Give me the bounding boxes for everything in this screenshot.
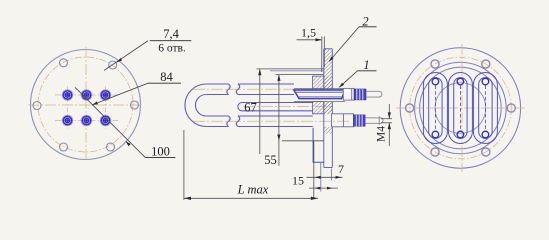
extension line blue vertical x=320.8: [320, 163, 322, 192]
lower tube centerline: [193, 120, 350, 122]
oval 1 inner dashed centerline: [434, 86, 436, 131]
pin 2: [81, 90, 92, 101]
heated zone circle A: [415, 62, 507, 154]
thermostat pocket tube: [238, 103, 313, 111]
upper stud rod: [366, 91, 382, 97]
svg-text:7,4: 7,4: [163, 27, 179, 41]
bolt hole bottom-left: [60, 143, 68, 151]
extension line for 15 left (gray vertical): [313, 141, 315, 200]
pin row dashed centerline lower: [55, 120, 118, 122]
dimension 1,5: [297, 37, 325, 73]
tube loop oval 1: [423, 73, 447, 144]
pin circles inside ovals: [432, 78, 489, 138]
svg-text:1: 1: [363, 58, 369, 72]
left flange vertical centerline: [85, 47, 87, 162]
svg-text:1,5: 1,5: [301, 26, 316, 40]
pin 1: [62, 90, 73, 101]
right flange outer circle: [400, 48, 520, 168]
svg-text:6 отв.: 6 отв.: [158, 43, 186, 55]
bolt hole bottom-right: [107, 143, 115, 151]
left flange bolt circle (orange dash-dot): [38, 57, 133, 152]
svg-text:2: 2: [362, 15, 368, 29]
heated zone circle B: [420, 67, 502, 149]
lower stud rod: [365, 116, 383, 125]
svg-text:100: 100: [151, 145, 170, 159]
bolt hole top-left: [60, 59, 68, 67]
lower tube left segment: [206, 116, 230, 127]
U-bend outer arc: [185, 84, 206, 127]
pin 4: [62, 115, 73, 126]
svg-text:55: 55: [264, 153, 277, 167]
bottom tab: [313, 128, 324, 163]
M4 dimension: [381, 104, 392, 146]
leader line for 7,4 / 6 holes: [104, 41, 191, 71]
pin row dashed centerline upper: [55, 94, 118, 96]
svg-text:7: 7: [338, 162, 344, 176]
upper tube right segment: [236, 84, 294, 95]
pin column centerline left: [67, 87, 69, 130]
right view hole left: [406, 104, 414, 112]
position label 1: [339, 71, 377, 88]
extension line blue vertical x=331.6: [331, 169, 333, 181]
extension line bottom (55): [282, 140, 324, 142]
right view vertical centerline: [461, 44, 463, 172]
L max extension line left: [183, 130, 185, 200]
welded boss upper (hatched): [313, 76, 333, 114]
leader line for 84: [92, 83, 181, 105]
dimension line 67: [258, 69, 261, 154]
svg-text:15: 15: [292, 174, 304, 188]
extension line top (55): [276, 74, 325, 76]
lower stud nut (threaded, blue): [354, 115, 366, 126]
pin 3: [100, 90, 111, 101]
tube loop oval 2: [448, 73, 472, 144]
upper bushing gray edges: [294, 89, 345, 102]
right view horizontal centerline: [396, 107, 525, 109]
pocket tube centerline: [243, 106, 333, 108]
svg-text:67: 67: [244, 101, 257, 115]
bolt hole top-right: [109, 61, 117, 69]
dimension arrow row y=177.3 (7): [307, 176, 343, 179]
upper bushing trapezoid: [294, 90, 345, 99]
terminal pins group: [62, 90, 111, 126]
right flange bolt circle (orange dash-dot): [410, 57, 512, 159]
dimension arrow row y=188.1 (15): [309, 187, 338, 190]
dimension line 55: [277, 75, 280, 166]
bolt hole right: [131, 101, 139, 109]
lower tube right segment: [236, 116, 312, 127]
leader line for 100: [75, 87, 175, 157]
upper tube left segment: [206, 84, 230, 95]
tube loop oval 3: [473, 73, 497, 144]
svg-text:84: 84: [160, 70, 173, 84]
U-bend inner arc: [195, 95, 206, 117]
right view hole top-right: [482, 60, 490, 68]
extension line top (67): [256, 68, 324, 70]
svg-text:L max: L max: [237, 183, 269, 197]
upper tube centerline: [193, 88, 345, 90]
right view hole bottom-left: [431, 148, 439, 156]
flange plate (hatched strip): [324, 49, 333, 168]
right view hole bottom-right: [482, 148, 490, 156]
pin 5: [81, 115, 92, 126]
svg-text:M4: M4: [375, 126, 387, 142]
left flange horizontal centerline: [28, 104, 143, 106]
right view hole right: [507, 104, 515, 112]
upper stud cylinder: [343, 88, 354, 100]
bolt hole left: [33, 102, 41, 110]
oval 3 inner dashed centerline: [484, 86, 486, 131]
L max dimension line: [184, 197, 318, 200]
upper stud nut (threaded, blue): [354, 89, 366, 100]
pin column centerline right: [105, 87, 107, 130]
position label 2: [329, 27, 377, 62]
top bar edge lines: [270, 70, 324, 72]
right view hole top-left: [431, 60, 439, 68]
oval 2 inner dashed centerline: [459, 86, 461, 131]
lower bushing rectangle: [332, 114, 354, 127]
left flange outer circle: [31, 50, 141, 160]
inner circle C: [435, 83, 486, 134]
pin 6: [100, 115, 111, 126]
